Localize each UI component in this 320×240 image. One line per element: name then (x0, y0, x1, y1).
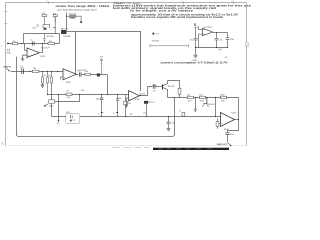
resistor R6 drop (42, 72, 44, 78)
svg-text:10mH: 10mH (70, 18, 76, 20)
wire U1A noninverting input (23, 55, 28, 58)
svg-text:TL072CP: TL072CP (203, 27, 212, 29)
wire U4 out drop (216, 33, 218, 48)
wire drop from H3 node (58, 95, 60, 121)
ground H5 (194, 109, 198, 111)
svg-text:+: + (103, 68, 104, 70)
wire (81, 74, 85, 76)
svg-text:TL072: TL072 (231, 113, 238, 115)
svg-text:LINE OUT: LINE OUT (217, 144, 228, 146)
junction dot H3 start (47, 94, 48, 95)
svg-text:1k: 1k (98, 114, 100, 116)
svg-text:(B): (B) (130, 113, 133, 115)
junction dot node C (42, 43, 43, 44)
battery symbol (71, 115, 73, 118)
svg-text:to be simple; use a 9V battery: to be simple; use a 9V battery (130, 10, 194, 13)
wire drop to H3 (107, 75, 109, 95)
wire U4 output (213, 32, 228, 34)
wire U2 plus input drop (127, 98, 129, 106)
wire H5 right corner feedback (238, 98, 240, 120)
svg-text:1n: 1n (179, 111, 181, 113)
junction dot U2 out (140, 95, 141, 96)
wire H3 to U2 (48, 94, 129, 96)
svg-text:-: - (222, 115, 223, 118)
ruler tick left 2 (4, 23, 7, 25)
node diamond A (36, 24, 38, 26)
wire box to corner (66, 31, 75, 33)
ruler tick top B (48, 1, 50, 4)
svg-text:BC183L: BC183L (46, 36, 54, 38)
node dot (55, 20, 56, 21)
op-amp U1B (63, 69, 76, 80)
svg-text:10u: 10u (171, 122, 174, 124)
svg-text:current consumption 4.7-5.8mA: current consumption 4.7-5.8mA @ 8.7V (160, 61, 228, 64)
wire drop + ground (195, 98, 197, 109)
wire drop to U3 input (215, 98, 217, 117)
wire U3 output (235, 119, 239, 121)
svg-text:10u: 10u (230, 134, 233, 136)
trimmer dark box (97, 73, 100, 76)
svg-text:handles most signals OK until: handles most signals OK until replacemen… (131, 16, 224, 19)
border frame bottom (faint) (6, 145, 247, 147)
svg-text:SIGNAL: SIGNAL (152, 40, 160, 43)
op-amp U4 (203, 28, 213, 36)
wire H1 corner up (59, 34, 61, 44)
svg-text:VTL5C: VTL5C (149, 102, 156, 104)
wire Q1 emitter to H5 (167, 92, 169, 97)
svg-text:BC560: BC560 (208, 104, 215, 106)
border frame left (5, 3, 7, 146)
input jack arrow (6, 68, 9, 71)
output jack arrow (228, 143, 231, 146)
border frame right (246, 3, 248, 146)
wire U1A output feedback (40, 44, 43, 53)
potentiometer bracket P1 (43, 25, 50, 28)
junction dot (54, 27, 55, 28)
junction dots H5 (195, 97, 196, 98)
wire U2 output (139, 87, 152, 96)
resistor R12 vertical (179, 94, 181, 97)
junction dot node B (21, 43, 22, 44)
svg-text:100u: 100u (49, 105, 54, 107)
ground C13 (167, 129, 171, 131)
svg-text:(x4): (x4) (218, 49, 222, 51)
node diamond B (80, 21, 83, 24)
svg-text:BC183L: BC183L (63, 36, 71, 38)
feedback wire long loop W3 (76, 32, 141, 92)
junction dot H7 right (227, 47, 228, 48)
svg-text:LINE IN: LINE IN (3, 66, 11, 68)
capacitor C4 below border (8, 49, 10, 52)
svg-text:1u: 1u (78, 70, 80, 72)
pot wiper box (44, 28, 47, 30)
wire bottom rail H6 (52, 116, 221, 118)
svg-text:center freq range 40Hz - 12kHz: center freq range 40Hz - 12kHz (56, 4, 111, 8)
junction dot (107, 94, 108, 95)
wire H7 supply rail (196, 47, 228, 49)
junction dot on loop (174, 97, 175, 98)
capacitor C12 electrolytic right (215, 38, 219, 40)
op-amp U2 (129, 91, 140, 101)
svg-text:BC549: BC549 (168, 86, 175, 88)
ruler tick top C (116, 1, 118, 4)
resistor R7 drop (47, 72, 49, 78)
ruler tick top E (233, 1, 235, 4)
wire line-in rail H2 (11, 71, 64, 73)
wire U1A inverting input (25, 44, 28, 51)
ground supply (194, 55, 198, 57)
wire U4 plus input (199, 34, 203, 47)
resistor R16 vertical (217, 119, 219, 129)
ruler label 1 bottom left (1, 142, 3, 145)
battery switch arrow (69, 118, 73, 121)
border frame top (6, 2, 247, 4)
svg-text:1M: 1M (33, 68, 36, 70)
wire tap vertical (66, 13, 68, 31)
svg-text:47u: 47u (190, 39, 193, 41)
terminal dot 0V (58, 120, 60, 122)
input terminal dot (7, 43, 9, 45)
supply tap marks (195, 23, 196, 26)
big supply loop wire (17, 57, 175, 137)
opto dark box (144, 101, 148, 104)
wire main H1 (8, 43, 60, 45)
wire opto to rail (146, 104, 148, 117)
resistor R8 drop (51, 72, 53, 78)
svg-text:1k: 1k (113, 113, 115, 115)
wire Q1 collector (168, 81, 180, 89)
svg-text:1n: 1n (30, 40, 32, 42)
wire to node diamond (75, 16, 81, 21)
op-amp U1A (27, 48, 40, 57)
wire R2 down (43, 17, 45, 25)
transistor Q2 (203, 98, 207, 104)
bottom dark bar (153, 148, 229, 150)
wire feedback top W2 (24, 33, 60, 35)
annotation measure line (150, 44, 189, 47)
junction dot U4 out (216, 32, 217, 33)
junction dot H3 mid (58, 94, 59, 95)
wire U1B noninverting stub (61, 77, 64, 80)
wire H5 right rail (168, 97, 239, 99)
wire U3 out down to C15 (228, 120, 239, 133)
wire R3 down (54, 17, 56, 34)
wire (90, 74, 107, 76)
resistor R11 series chain (125, 95, 127, 117)
battery blob (70, 120, 72, 122)
ruler tick top D (183, 1, 185, 4)
resistor R22 box (67, 15, 70, 17)
capacitor C15 output (225, 133, 229, 142)
junction dots H6 (168, 116, 169, 117)
ground U1A (21, 59, 25, 61)
transistor Q1 (162, 84, 164, 89)
svg-text:10u: 10u (96, 99, 99, 101)
diode D1 chain (226, 33, 230, 48)
op-amp U3 (221, 113, 235, 127)
capacitor C3 hanging (43, 34, 45, 44)
wire U3 plus stub (219, 123, 221, 125)
wire H4 branch (55, 95, 80, 102)
wire long drop to bottom rail (51, 83, 53, 117)
junction dots H7 (195, 47, 196, 48)
ruler label 2 right (246, 43, 249, 47)
junction dots H2 (29, 71, 30, 72)
wire W2 left drop (23, 34, 25, 44)
wire U4 minus input (199, 26, 203, 29)
capacitor C14 above rail (182, 112, 185, 116)
wire drop ground supply (195, 48, 197, 56)
svg-text:(2x): (2x) (32, 27, 36, 29)
svg-text:4k7: 4k7 (143, 113, 146, 115)
svg-text:4k7: 4k7 (43, 75, 46, 77)
svg-text:use sub decimal to loop here: use sub decimal to loop here (57, 8, 98, 11)
capacitor C11 electrolytic left (194, 28, 198, 48)
ruler tick left (4, 11, 7, 13)
wire U1B output (76, 74, 78, 76)
junction dot U3 out (238, 119, 239, 120)
junction dot H4 (79, 94, 80, 95)
ground U2 plus (125, 106, 128, 108)
ground R6 (41, 85, 44, 87)
junction dot tap (66, 16, 67, 17)
faint footer marks (112, 147, 149, 149)
node marker on W3 (152, 32, 155, 35)
connector arrow node D (45, 104, 48, 107)
capacitor C13 drop ground (167, 117, 171, 129)
wire to transistor (155, 86, 163, 88)
capacitor C5 box 220u (49, 100, 55, 103)
svg-text:47u: 47u (219, 39, 222, 41)
